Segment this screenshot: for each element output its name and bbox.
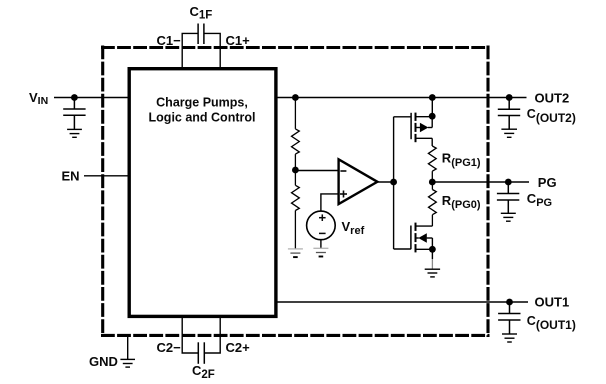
junction PG node <box>429 179 436 186</box>
svg-text:C2−: C2− <box>157 340 182 355</box>
svg-text:Vref: Vref <box>342 219 365 237</box>
capacitor C(OUT2) <box>498 98 520 130</box>
svg-text:R(PG1): R(PG1) <box>442 151 481 169</box>
resistor divider lower <box>292 170 300 249</box>
svg-text:C1+: C1+ <box>226 33 251 48</box>
wire gate lead upper FET <box>394 116 412 118</box>
node feedback tap <box>292 167 299 174</box>
junction divider tap on OUT2 rail <box>292 94 299 101</box>
svg-text:C1F: C1F <box>190 4 213 21</box>
ground (C(OUT1)) <box>502 334 517 342</box>
junction VIN <box>71 94 78 101</box>
wire VIN <box>54 97 129 99</box>
svg-text:C2+: C2+ <box>226 340 251 355</box>
terminal dot OUT2 <box>506 94 513 101</box>
resistor R(PG1) <box>428 146 436 182</box>
capacitor C2F <box>198 342 204 364</box>
ground (VIN cap) <box>67 129 82 137</box>
ground (C(OUT2)) <box>501 129 517 137</box>
wire Vref to ground <box>320 240 322 249</box>
junction FET drain on OUT2 rail <box>429 94 436 101</box>
svg-text:CPG: CPG <box>527 191 552 209</box>
svg-text:Logic and Control: Logic and Control <box>149 110 256 124</box>
transistor upper PMOS <box>411 113 432 146</box>
ground (lower FET) <box>425 269 440 277</box>
wire C1- lead <box>182 33 198 68</box>
wire op-amp noninverting input <box>321 194 339 211</box>
svg-text:R(PG0): R(PG0) <box>442 193 481 211</box>
dashed IC boundary <box>101 46 490 338</box>
op-amp comparator <box>339 159 378 204</box>
svg-text:VIN: VIN <box>29 90 48 107</box>
svg-text:OUT2: OUT2 <box>535 90 570 105</box>
Vref plus sign <box>319 214 326 221</box>
capacitor C1F <box>198 24 204 45</box>
wire op-amp inverting input <box>295 170 338 172</box>
ground (divider) <box>288 249 303 257</box>
junction FET body/drain <box>429 113 436 120</box>
junction gate drive node <box>390 179 397 186</box>
wire op-amp output <box>377 181 393 183</box>
svg-text:C2F: C2F <box>192 363 215 381</box>
wire EN <box>84 175 129 177</box>
ground (Vref) <box>313 248 328 256</box>
voltage source Vref <box>307 211 336 240</box>
svg-text:PG: PG <box>538 175 557 190</box>
capacitor C(OUT1) <box>498 302 520 334</box>
wire C2- lead <box>182 316 198 353</box>
resistor R(PG0) <box>429 182 437 226</box>
wire OUT1 rail <box>276 301 528 303</box>
svg-text:C1−: C1− <box>157 33 182 48</box>
svg-text:C(OUT1): C(OUT1) <box>527 314 576 332</box>
wire GND pin <box>127 337 129 360</box>
wire C1+ lead <box>204 33 220 68</box>
wire OUT2 rail <box>276 97 527 99</box>
svg-text:EN: EN <box>62 169 80 184</box>
terminal dot OUT1 <box>506 299 513 306</box>
capacitor CPG <box>497 182 519 213</box>
op-amp minus sign <box>340 170 346 172</box>
resistor divider upper <box>292 98 300 171</box>
capacitor CIN <box>63 98 85 130</box>
junction FET source/body <box>429 246 436 253</box>
terminal dot PG <box>505 179 512 186</box>
wire C2+ lead <box>204 316 220 353</box>
svg-text:OUT1: OUT1 <box>535 295 570 310</box>
ground (CPG) <box>501 213 516 221</box>
svg-text:GND: GND <box>89 354 118 369</box>
op-amp plus sign <box>340 191 347 198</box>
Vref minus sign <box>319 232 326 234</box>
transistor lower PMOS <box>411 223 433 253</box>
svg-text:C(OUT2): C(OUT2) <box>527 107 576 125</box>
wire PG <box>432 181 529 183</box>
block: Charge Pumps, Logic and Control <box>129 69 276 317</box>
wire gate bus vertical <box>393 117 395 249</box>
wire gate lead lower FET <box>394 248 411 250</box>
svg-text:Charge Pumps,: Charge Pumps, <box>156 95 248 109</box>
ground (GND pin) <box>120 359 135 367</box>
wire FET to ground <box>431 249 433 269</box>
wire drain to OUT2 rail <box>431 98 433 117</box>
